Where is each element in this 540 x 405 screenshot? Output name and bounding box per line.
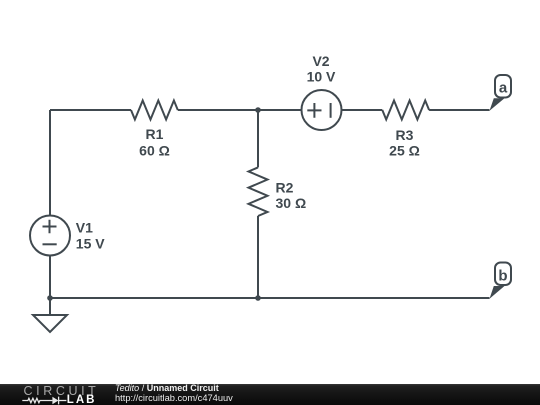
svg-text:30 Ω: 30 Ω <box>276 195 307 211</box>
footer bar <box>0 384 540 405</box>
junction dot bottom R2 node <box>255 295 261 301</box>
V2 minus bar <box>330 103 332 118</box>
junction dot ground node <box>47 295 53 301</box>
svg-text:25 Ω: 25 Ω <box>389 143 420 159</box>
V2 plus sign <box>307 103 321 118</box>
wire R2 branch from top node down <box>257 110 259 167</box>
wire R2 to bottom rail <box>257 216 259 298</box>
svg-text:R2: R2 <box>276 180 294 196</box>
ground stem <box>49 298 51 315</box>
V1 minus sign <box>43 243 57 245</box>
svg-text:60 Ω: 60 Ω <box>139 143 170 159</box>
svg-text:LAB: LAB <box>67 394 97 405</box>
terminal a box <box>495 75 511 98</box>
svg-text:10 V: 10 V <box>307 69 336 85</box>
terminal b box <box>495 263 511 286</box>
wire bottom rail <box>50 297 490 299</box>
svg-text:V1: V1 <box>76 220 93 236</box>
V1 plus sign <box>43 220 57 233</box>
resistor R1 <box>131 101 178 120</box>
wire R1 to V2 <box>178 109 302 111</box>
logo resistor-diode glyph <box>22 397 66 405</box>
footer url line <box>0 392 1 394</box>
wire top-left corner to R1 <box>50 109 131 111</box>
svg-text:a: a <box>499 79 508 96</box>
ground <box>33 315 67 332</box>
voltage source V2 <box>302 90 342 130</box>
resistor R2 <box>249 167 268 216</box>
terminal a flag <box>490 98 505 111</box>
wire V2 to R3 <box>342 109 383 111</box>
svg-text:V2: V2 <box>312 53 329 69</box>
wire V1 bottom to ground node <box>49 256 51 299</box>
svg-text:R1: R1 <box>146 126 164 142</box>
resistor R3 <box>382 101 429 120</box>
footer title line <box>0 382 1 384</box>
wire R3 to terminal a <box>429 109 489 111</box>
terminal b flag <box>490 286 505 299</box>
voltage source V1 <box>30 216 70 256</box>
wire V1 top to top-left corner <box>49 110 51 216</box>
svg-text:R3: R3 <box>396 127 414 143</box>
junction dot node top (R2 tap) <box>255 107 261 113</box>
svg-text:b: b <box>498 268 507 285</box>
CircuitLab logo <box>0 384 110 405</box>
svg-text:15 V: 15 V <box>76 236 105 252</box>
